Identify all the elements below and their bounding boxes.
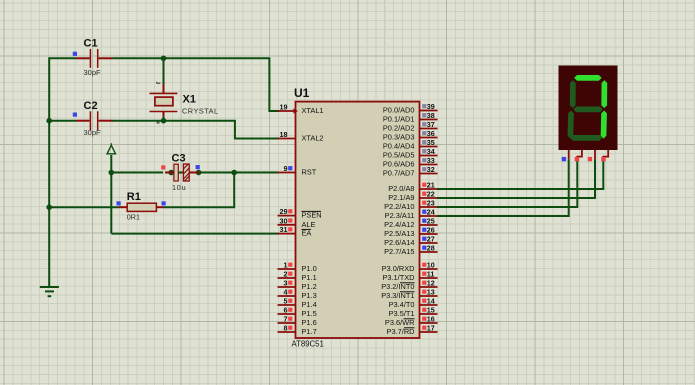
capacitor C3 right plate (polarized) <box>183 164 189 181</box>
pin XTAL1 input arrow <box>294 109 297 113</box>
svg-text:RST: RST <box>302 168 317 177</box>
svg-text:30: 30 <box>280 216 288 225</box>
capacitor C1 leads <box>76 57 90 59</box>
pin 32 P0.7/AD7 (right stub+number) <box>420 173 438 175</box>
wire RST junction to C3 left <box>111 172 163 174</box>
capacitor C3 left lead <box>165 172 174 174</box>
capacitor C1 plates <box>89 49 91 68</box>
svg-text:15: 15 <box>427 306 435 315</box>
svg-text:P0.2/AD2: P0.2/AD2 <box>383 124 415 133</box>
display pin 2 stub <box>577 150 582 159</box>
crystal X1 bottom lead <box>163 112 165 117</box>
pin 24 P2.3/A11 (right stub+number) <box>420 215 438 217</box>
terminal marker C1 left <box>73 52 77 56</box>
pin 14 P3.4/T0 (right stub+number) <box>420 304 438 306</box>
wire crystal pin 2 lead (net XTAL2) <box>163 116 165 121</box>
svg-text:XTAL2: XTAL2 <box>302 134 324 143</box>
svg-text:P1.3: P1.3 <box>302 291 317 300</box>
junction RST/R1 node <box>231 170 237 176</box>
junction C3 left terminal <box>168 170 174 176</box>
7seg segment B (lit) <box>601 80 607 108</box>
svg-text:P1.6: P1.6 <box>302 318 317 327</box>
pin number 2 (crystal) <box>157 121 159 124</box>
svg-text:P2.2/A10: P2.2/A10 <box>384 202 414 211</box>
wire R1 left to rail <box>49 206 118 208</box>
capacitor C3 left plate <box>174 164 178 181</box>
pin 6 P1.5 (left stub+number) <box>278 313 296 315</box>
pin 34 P0.5/AD5 (right stub+number) <box>420 155 438 157</box>
pin 16 P3.6/WR (right stub+number) <box>420 322 438 324</box>
microcontroller U1 body <box>296 102 420 338</box>
svg-text:21: 21 <box>427 181 435 190</box>
pin 18 XTAL2 (left stub+number) <box>278 138 296 140</box>
svg-text:P1.7: P1.7 <box>302 327 317 336</box>
svg-text:4: 4 <box>284 288 288 297</box>
svg-text:28: 28 <box>427 244 435 253</box>
wire C3 right to RST pin <box>199 172 279 174</box>
pin 11 P3.1/TXD (right stub+number) <box>420 277 438 279</box>
svg-text:ALE: ALE <box>302 220 316 229</box>
junction C2 tap on rail <box>46 118 52 124</box>
pin 9 RST (left stub+number) <box>278 172 296 174</box>
svg-text:17: 17 <box>427 324 435 333</box>
svg-text:33: 33 <box>427 156 435 165</box>
svg-text:X1: X1 <box>183 94 196 106</box>
svg-text:35: 35 <box>427 138 435 147</box>
svg-text:30pF: 30pF <box>84 128 102 137</box>
svg-text:P3.5/T1: P3.5/T1 <box>389 309 415 318</box>
svg-text:11: 11 <box>427 270 435 279</box>
svg-text:38: 38 <box>427 111 435 120</box>
svg-text:XTAL1: XTAL1 <box>302 106 324 115</box>
wire C2 right to XTAL2 pin <box>111 121 279 139</box>
svg-text:6: 6 <box>284 306 288 315</box>
svg-text:2: 2 <box>284 270 288 279</box>
svg-text:CRYSTAL: CRYSTAL <box>182 107 219 116</box>
svg-text:14: 14 <box>427 297 435 306</box>
svg-text:P1.0: P1.0 <box>302 264 317 273</box>
svg-text:18: 18 <box>280 130 288 139</box>
svg-text:P2.5/A13: P2.5/A13 <box>384 229 414 238</box>
pin 30 ALE (left stub+number) <box>278 224 296 226</box>
svg-text:U1: U1 <box>294 86 310 100</box>
svg-text:P3.4/T0: P3.4/T0 <box>389 300 415 309</box>
display pin 4 stub <box>603 150 608 159</box>
svg-text:P0.1/AD1: P0.1/AD1 <box>383 115 415 124</box>
svg-text:P2.7/A15: P2.7/A15 <box>384 247 414 256</box>
svg-text:PSEN: PSEN <box>302 211 322 220</box>
display pin 1 stub <box>568 150 570 159</box>
wire C1 left to left rail <box>49 58 76 120</box>
svg-text:P2.1/A9: P2.1/A9 <box>388 193 414 202</box>
svg-text:29: 29 <box>280 207 288 216</box>
terminal marker R1 left <box>117 201 121 205</box>
7seg segment A (lit) <box>574 75 602 81</box>
terminal marker R1 right <box>162 201 166 205</box>
junction crystal pin2 / XTAL2 net <box>161 118 167 124</box>
svg-text:19: 19 <box>280 103 288 112</box>
pin 1 P1.0 (left stub+number) <box>278 268 296 270</box>
svg-text:27: 27 <box>427 235 435 244</box>
7seg segment D (unlit) <box>570 135 602 141</box>
pin 36 P0.3/AD3 (right stub+number) <box>420 137 438 139</box>
svg-text:C3: C3 <box>172 153 186 165</box>
wire left rail down to ground <box>48 207 50 287</box>
pin 13 P3.3/INT1 (right stub+number) <box>420 295 438 297</box>
junction C3 right terminal <box>196 170 202 176</box>
svg-text:P3.0/RXD: P3.0/RXD <box>382 264 415 273</box>
pin 38 P0.1/AD1 (right stub+number) <box>420 119 438 121</box>
svg-text:24: 24 <box>427 208 435 217</box>
7seg segment G (unlit) <box>573 107 603 113</box>
svg-text:26: 26 <box>427 226 435 235</box>
svg-text:13: 13 <box>427 288 435 297</box>
wire EA pin net <box>111 233 279 235</box>
wire crystal pin 1 lead (net XTAL1) <box>163 58 165 83</box>
svg-text:10: 10 <box>427 261 435 270</box>
svg-text:12: 12 <box>427 279 435 288</box>
svg-text:P2.4/A12: P2.4/A12 <box>384 220 414 229</box>
pin 26 P2.5/A13 (right stub+number) <box>420 233 438 235</box>
junction RST arrow node <box>109 170 115 176</box>
resistor R1 leads <box>119 206 128 208</box>
crystal X1 top lead <box>163 84 165 94</box>
svg-text:P0.4/AD4: P0.4/AD4 <box>383 142 415 151</box>
wire P2.1 to display pin C <box>437 159 595 198</box>
pin 15 P3.5/T1 (right stub+number) <box>420 313 438 315</box>
svg-text:P3.2/INT0: P3.2/INT0 <box>381 282 414 291</box>
svg-text:P1.5: P1.5 <box>302 309 317 318</box>
svg-text:P1.1: P1.1 <box>302 273 317 282</box>
crystal X1 bottom plate line <box>150 111 178 113</box>
pin number 1 (crystal) <box>157 82 161 83</box>
pin 28 P2.7/A15 (right stub+number) <box>420 251 438 253</box>
wire P2.2 to display pin B <box>437 159 577 207</box>
svg-text:37: 37 <box>427 120 435 129</box>
svg-text:C1: C1 <box>84 38 98 50</box>
node arrow (RST net) <box>107 145 115 154</box>
terminal marker C3 right <box>196 165 200 169</box>
display terminal marker B <box>575 157 579 161</box>
svg-text:39: 39 <box>427 102 435 111</box>
pin 29 PSEN (left stub+number) <box>278 215 296 217</box>
svg-text:EA: EA <box>302 229 312 238</box>
svg-text:C2: C2 <box>84 100 98 112</box>
wire C1 right to XTAL1 pin <box>113 58 280 111</box>
pin 4 P1.3 (left stub+number) <box>278 295 296 297</box>
svg-text:31: 31 <box>280 225 288 234</box>
svg-text:P2.0/A8: P2.0/A8 <box>388 184 414 193</box>
pin 39 P0.0/AD0 (right stub+number) <box>420 110 438 112</box>
svg-text:36: 36 <box>427 129 435 138</box>
pin 5 P1.4 (left stub+number) <box>278 304 296 306</box>
svg-text:AT89C51: AT89C51 <box>292 340 324 349</box>
junction crystal pin1 / XTAL1 net <box>161 56 167 62</box>
7seg segment C (unlit) <box>601 111 607 139</box>
svg-text:22: 22 <box>427 190 435 199</box>
7-segment display body <box>559 66 618 151</box>
wire through C3 gap <box>178 172 183 174</box>
pin 27 P2.6/A14 (right stub+number) <box>420 242 438 244</box>
pin 33 P0.6/AD6 (right stub+number) <box>420 164 438 166</box>
svg-text:25: 25 <box>427 217 435 226</box>
svg-text:8: 8 <box>284 324 288 333</box>
svg-text:7: 7 <box>284 315 288 324</box>
svg-text:0R1: 0R1 <box>127 213 140 222</box>
terminal marker C2 left <box>73 113 77 117</box>
pin 8 P1.7 (left stub+number) <box>278 331 296 333</box>
svg-text:P3.1/TXD: P3.1/TXD <box>382 273 414 282</box>
pin 37 P0.2/AD2 (right stub+number) <box>420 128 438 130</box>
capacitor C2 plates <box>89 111 91 130</box>
pin 22 P2.1/A9 (right stub+number) <box>420 197 438 199</box>
ground <box>40 286 59 288</box>
crystal X1 body <box>155 97 173 106</box>
svg-text:P0.5/AD5: P0.5/AD5 <box>383 151 415 160</box>
display terminal marker C <box>588 157 592 161</box>
svg-text:P0.6/AD6: P0.6/AD6 <box>383 160 415 169</box>
wire P2.3 to display pin A <box>437 159 569 216</box>
pin 35 P0.4/AD4 (right stub+number) <box>420 146 438 148</box>
terminal marker C3 left <box>161 165 165 169</box>
wire P2.0 to display pin D <box>437 159 603 189</box>
resistor R1 body <box>127 203 156 211</box>
pin 10 P3.0/RXD (right stub+number) <box>420 268 438 270</box>
display pin 3 stub <box>594 150 596 159</box>
svg-text:3: 3 <box>284 279 288 288</box>
svg-text:1: 1 <box>284 261 288 270</box>
svg-text:16: 16 <box>427 315 435 324</box>
display terminal marker (floating) <box>562 157 566 161</box>
pin 25 P2.4/A12 (right stub+number) <box>420 224 438 226</box>
pin 19 XTAL1 (left stub+number) <box>278 110 296 112</box>
pin 23 P2.2/A10 (right stub+number) <box>420 206 438 208</box>
svg-text:R1: R1 <box>127 191 141 203</box>
svg-text:P2.3/A11: P2.3/A11 <box>385 211 415 220</box>
svg-text:P2.6/A14: P2.6/A14 <box>384 238 414 247</box>
pin 2 P1.1 (left stub+number) <box>278 277 296 279</box>
7seg segment E (unlit) <box>568 111 574 139</box>
capacitor C2 leads <box>76 120 90 122</box>
svg-text:P0.7/AD7: P0.7/AD7 <box>383 169 415 178</box>
svg-text:30pF: 30pF <box>84 68 102 77</box>
svg-text:P0.3/AD3: P0.3/AD3 <box>383 133 415 142</box>
svg-text:P3.3/INT1: P3.3/INT1 <box>381 291 414 300</box>
svg-text:P3.7/RD: P3.7/RD <box>387 327 415 336</box>
pin 17 P3.7/RD (right stub+number) <box>420 331 438 333</box>
pin 21 P2.0/A8 (right stub+number) <box>420 188 438 190</box>
svg-text:34: 34 <box>427 147 435 156</box>
crystal X1 top plate line <box>150 92 178 94</box>
svg-text:10u: 10u <box>172 183 186 192</box>
capacitor C3 right lead <box>189 172 199 174</box>
pin 31 EA (left stub+number) <box>278 233 296 235</box>
wire RST net down to R1 right <box>164 173 235 208</box>
svg-text:32: 32 <box>427 165 435 174</box>
pin 3 P1.2 (left stub+number) <box>278 286 296 288</box>
svg-text:5: 5 <box>284 297 288 306</box>
svg-text:P3.6/WR: P3.6/WR <box>385 318 415 327</box>
svg-text:P1.4: P1.4 <box>302 300 317 309</box>
svg-text:P0.0/AD0: P0.0/AD0 <box>383 106 415 115</box>
svg-text:9: 9 <box>284 164 288 173</box>
svg-text:23: 23 <box>427 199 435 208</box>
wire C2 left lead connection <box>49 120 76 122</box>
wire left rail C2-junction to R1-junction <box>48 121 50 208</box>
svg-text:P1.2: P1.2 <box>302 282 317 291</box>
7seg segment F (unlit) <box>570 80 576 108</box>
pin 12 P3.2/INT0 (right stub+number) <box>420 286 438 288</box>
wire RST vertical (arrow to EA row) <box>110 155 112 234</box>
junction R1 tap on rail <box>46 204 52 210</box>
display terminal marker D <box>601 157 605 161</box>
pin 7 P1.6 (left stub+number) <box>278 322 296 324</box>
